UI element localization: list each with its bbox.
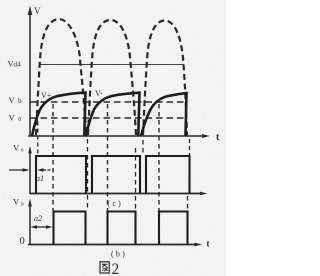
caption 图 2 (hand-drawn glyph): [100, 262, 109, 273]
a1 dimension arrows: [9, 168, 51, 172]
bottom pulse 2: [108, 212, 136, 245]
vertical dashed projection line x=107.5: [107, 104, 109, 211]
vertical dashed line x=143 (short, cycle boundary): [142, 140, 144, 155]
top chart V axis: [28, 6, 33, 137]
vertical dashed projection line x=159: [158, 104, 160, 211]
bottom pulse 3: [159, 212, 188, 245]
middle pulse 2: [92, 156, 140, 194]
vertical dashed line x=135.5: [135, 148, 137, 212]
top chart t axis: [28, 134, 210, 138]
middle chart baseline: [30, 192, 208, 196]
Vd4 level line: [40, 64, 184, 66]
middle pulse 1: [36, 156, 86, 194]
capacitor charge curve C2: [86, 93, 140, 136]
bottom pulse 1: [54, 212, 86, 245]
dashed sine hump 3: [143, 21, 187, 136]
dashed sine hump 1: [36, 19, 86, 135]
vertical dashed line x=187.5 (short, bottom): [187, 196, 189, 210]
vertical dashed line x=189.5 (short, above middle P3 fall): [189, 139, 191, 155]
bottom chart t axis: [28, 243, 202, 247]
middle pulse 3: [146, 156, 190, 194]
vertical dashed line x=87.5 (cycle boundary): [87, 139, 89, 210]
capacitor charge curve C1: [32, 93, 86, 136]
Va dashed level line: [30, 117, 187, 119]
vertical dashed line x=37.5 (short, pulse rise projection): [37, 122, 39, 156]
V+ dashed level line: [30, 101, 185, 103]
middle chart Vo axis: [28, 146, 32, 194]
dashed sine hump 2: [88, 20, 136, 135]
vertical dashed projection line x=54: [52, 104, 54, 211]
a2 dimension arrow: [31, 225, 53, 229]
capacitor charge curve C3: [141, 93, 187, 136]
bottom chart Vo axis: [28, 199, 32, 246]
